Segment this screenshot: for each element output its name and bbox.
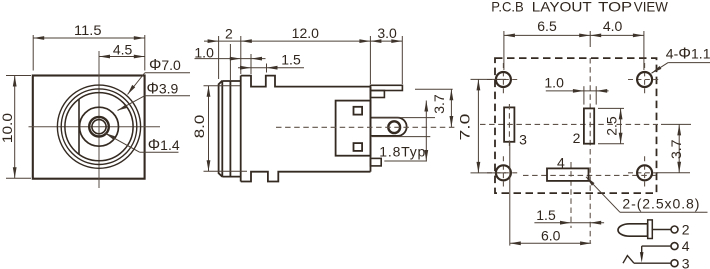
pad 3: [504, 107, 514, 141]
dim 12.0 (top): [241, 40, 371, 42]
dim 2 (top): [204, 36, 241, 79]
housing square hole upper: [354, 107, 363, 115]
lug step block: [371, 91, 385, 98]
pcb dashed outline: [495, 58, 657, 193]
svg-text:1.5: 1.5: [536, 207, 556, 223]
svg-text:Φ1.4: Φ1.4: [148, 137, 180, 154]
terminal lug plate (pin 2): [371, 85, 403, 90]
dim 1.0 (pad2 width): [546, 86, 609, 104]
svg-text:Φ3.9: Φ3.9: [147, 81, 179, 98]
pad row dashed line: [523, 174, 658, 176]
front view centerlines: [29, 51, 161, 188]
dim 1.5 (pcb bottom): [534, 222, 604, 224]
svg-text:10.0: 10.0: [0, 113, 15, 143]
dim 1.0 (top small): [195, 44, 266, 80]
svg-text:12.0: 12.0: [292, 25, 319, 41]
svg-text:Φ7.0: Φ7.0: [149, 57, 181, 74]
svg-text:6.0: 6.0: [541, 228, 561, 244]
side view front cap: [222, 81, 240, 177]
svg-text:6.5: 6.5: [537, 18, 557, 34]
svg-text:2.5: 2.5: [603, 116, 619, 136]
svg-text:3.0: 3.0: [377, 25, 397, 41]
svg-text:4.0: 4.0: [603, 18, 623, 34]
schematic pin 3 with switch contact: [671, 260, 678, 267]
svg-text:2: 2: [225, 25, 233, 41]
dim 3.7 (side right): [415, 89, 453, 127]
dim 10.0 (front height): [6, 76, 31, 179]
svg-text:1.5: 1.5: [281, 52, 301, 68]
svg-text:4: 4: [557, 155, 565, 171]
mounting hole top-right: [628, 63, 661, 96]
dim 7.0 (pcb left): [471, 79, 507, 172]
dim 8.0 (flange height): [204, 86, 248, 172]
svg-text:11.5: 11.5: [74, 22, 102, 38]
dim 3.7 (pcb right): [656, 124, 691, 172]
pad 4: [547, 168, 589, 181]
svg-text:3: 3: [682, 255, 690, 269]
svg-text:2: 2: [573, 130, 581, 146]
svg-text:2: 2: [682, 222, 690, 238]
switch housing: [336, 101, 371, 156]
dim 2.5 (pad2 height): [598, 108, 624, 143]
svg-text:3.7: 3.7: [431, 94, 447, 114]
housing square hole lower: [354, 143, 363, 151]
dim 11.5 (front width): [33, 35, 145, 71]
dim 4.5 (center offset): [99, 56, 145, 58]
pcb vertical centerline: [589, 58, 591, 243]
pad4 centerline: [570, 162, 572, 228]
schematic plug symbol: [618, 224, 648, 236]
svg-text:1.8Typ: 1.8Typ: [379, 144, 425, 160]
dim 1.8Typ: [372, 101, 435, 162]
dim 6.0 (pcb bottom): [508, 104, 510, 146]
circle phi3.9: [80, 107, 119, 146]
svg-text:4-Φ1.1: 4-Φ1.1: [666, 46, 710, 63]
svg-text:7.0: 7.0: [457, 113, 473, 140]
dim 1.5 (top small): [238, 64, 304, 73]
svg-text:4: 4: [682, 238, 690, 254]
center pin ring: [89, 117, 109, 137]
dim 6.5: [504, 31, 644, 70]
pcb horizontal centerline: [480, 123, 658, 125]
dim 3.0 (top): [370, 36, 402, 84]
pin hole circle: [388, 121, 400, 133]
pad 2: [584, 108, 594, 143]
svg-text:2-(2.5x0.8): 2-(2.5x0.8): [622, 196, 699, 212]
mounting hole bottom-left: [487, 156, 520, 189]
svg-text:8.0: 8.0: [191, 115, 207, 139]
front view body outline: [33, 76, 145, 179]
schematic pin 2: [652, 229, 672, 231]
bottom tab (pin 3): [371, 158, 382, 166]
dim 4.0: [590, 34, 644, 36]
svg-text:1.0: 1.0: [194, 45, 214, 61]
mounting hole bottom-right: [628, 156, 661, 189]
svg-text:3.7: 3.7: [668, 139, 684, 159]
circle phi1.4: [92, 120, 106, 134]
svg-text:4.5: 4.5: [113, 42, 133, 58]
schematic pin 4: [671, 243, 678, 250]
side view main body outline: [241, 76, 371, 182]
svg-text:1.0: 1.0: [544, 75, 564, 91]
key chord line: [78, 99, 80, 154]
side view flange: [219, 81, 223, 177]
front view barrel outer circles: [57, 85, 140, 168]
svg-text:3: 3: [519, 132, 527, 148]
svg-text:P.C.BLAYOUTTOPVIEW: P.C.BLAYOUTTOPVIEW: [491, 0, 668, 15]
center pin cylinder: [371, 118, 407, 136]
circle phi7.0: [65, 93, 133, 161]
mounting hole top-left: [487, 63, 520, 96]
side view dashed centerline: [276, 126, 458, 128]
